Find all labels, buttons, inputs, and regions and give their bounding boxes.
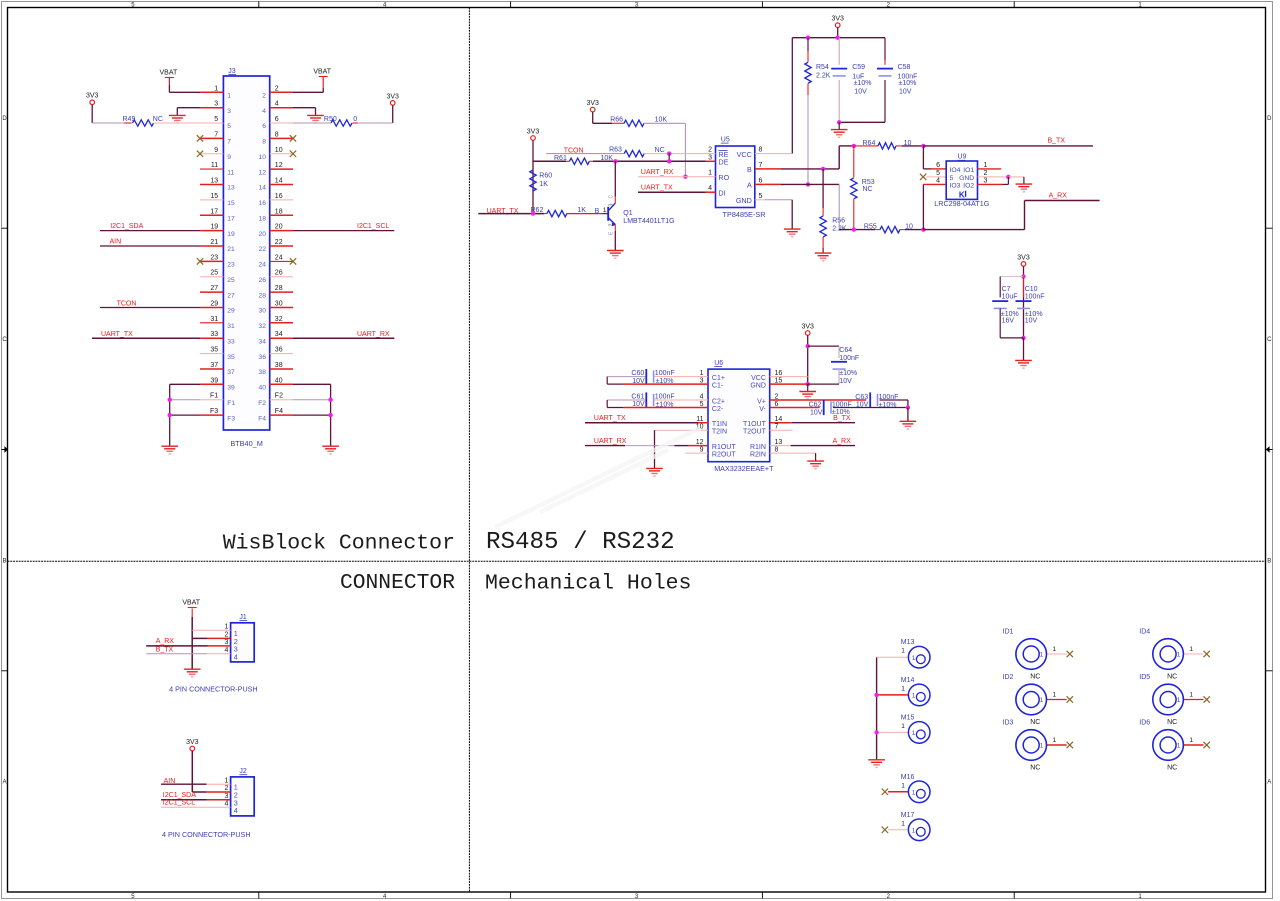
svg-text:1: 1 (901, 648, 905, 655)
svg-text:34: 34 (259, 338, 267, 345)
svg-text:R62: R62 (531, 207, 544, 214)
svg-text:UART_TX: UART_TX (594, 415, 626, 422)
svg-text:IO1: IO1 (963, 167, 974, 174)
svg-text:28: 28 (275, 285, 283, 292)
svg-text:B: B (1267, 558, 1271, 564)
svg-text:3: 3 (708, 154, 712, 161)
svg-text:J2: J2 (239, 768, 247, 775)
svg-text:C: C (2, 337, 7, 343)
svg-text:1: 1 (1053, 737, 1057, 744)
svg-text:UART_TX: UART_TX (641, 185, 673, 192)
svg-text:1: 1 (1177, 697, 1181, 704)
svg-text:39: 39 (210, 377, 218, 384)
svg-text:17: 17 (210, 208, 218, 215)
svg-text:F4: F4 (258, 415, 266, 422)
svg-text:100nF: 100nF (655, 370, 675, 377)
svg-text:4: 4 (224, 647, 228, 654)
svg-text:22: 22 (275, 239, 283, 246)
svg-text:3: 3 (214, 101, 218, 108)
svg-text:GND: GND (959, 175, 974, 182)
svg-text:10V: 10V (839, 378, 852, 385)
svg-text:4: 4 (224, 801, 228, 808)
svg-text:DE: DE (718, 158, 728, 167)
svg-text:10V: 10V (856, 401, 869, 408)
svg-text:3V3: 3V3 (1017, 254, 1030, 261)
svg-text:C2-: C2- (712, 406, 724, 413)
svg-text:29: 29 (210, 301, 218, 308)
svg-text:10: 10 (905, 224, 913, 231)
svg-text:VCC: VCC (751, 375, 766, 382)
svg-text:12: 12 (259, 169, 267, 176)
svg-text:10V: 10V (854, 89, 867, 96)
svg-text:21: 21 (210, 239, 218, 246)
svg-text:C: C (609, 195, 615, 199)
svg-text:24: 24 (259, 262, 267, 269)
svg-text:3: 3 (227, 108, 231, 115)
svg-text:TCON: TCON (117, 300, 137, 307)
svg-text:10K: 10K (655, 117, 668, 124)
svg-text:31: 31 (210, 316, 218, 323)
svg-text:1: 1 (912, 655, 916, 662)
svg-text:1: 1 (1040, 743, 1044, 750)
svg-text:1: 1 (901, 685, 905, 692)
svg-text:WisBlock Connector: WisBlock Connector (223, 532, 455, 556)
svg-text:10uF: 10uF (1002, 293, 1018, 300)
svg-text:1: 1 (1189, 692, 1193, 699)
svg-text:25: 25 (210, 270, 218, 277)
svg-text:I2C1_SDA: I2C1_SDA (110, 223, 143, 230)
svg-text:29: 29 (227, 308, 235, 315)
svg-text:C64: C64 (839, 347, 852, 354)
svg-text:6: 6 (759, 177, 763, 184)
svg-text:1: 1 (224, 777, 228, 784)
svg-text:7: 7 (759, 162, 763, 169)
svg-text:NC: NC (153, 116, 163, 123)
svg-text:I2C1_SDA: I2C1_SDA (163, 792, 196, 799)
svg-text:1K: 1K (539, 181, 548, 188)
svg-text:37: 37 (227, 369, 235, 376)
svg-text:1: 1 (1189, 737, 1193, 744)
svg-text:R1OUT: R1OUT (712, 444, 736, 451)
svg-text:A_RX: A_RX (156, 638, 175, 645)
svg-text:5: 5 (759, 193, 763, 200)
svg-text:21: 21 (227, 246, 235, 253)
svg-text:8: 8 (275, 131, 279, 138)
svg-text:37: 37 (210, 362, 218, 369)
svg-text:7: 7 (775, 424, 779, 431)
svg-text:NC: NC (1167, 674, 1177, 681)
svg-text:38: 38 (259, 369, 267, 376)
svg-text:100nF: 100nF (655, 394, 675, 401)
svg-text:T1OUT: T1OUT (743, 421, 767, 428)
svg-text:33: 33 (227, 338, 235, 345)
svg-text:3V3: 3V3 (831, 16, 844, 23)
svg-text:6: 6 (936, 162, 940, 169)
svg-text:V+: V+ (757, 398, 766, 405)
svg-text:100nF: 100nF (879, 394, 899, 401)
svg-text:100nF: 100nF (839, 355, 859, 362)
svg-text:100nF: 100nF (832, 401, 852, 408)
svg-text:AIN: AIN (164, 778, 176, 785)
svg-text:7: 7 (227, 139, 231, 146)
svg-text:13: 13 (227, 185, 235, 192)
svg-text:F2: F2 (258, 400, 266, 407)
svg-text:19: 19 (210, 224, 218, 231)
svg-text:B_TX: B_TX (156, 646, 174, 653)
svg-text:25: 25 (227, 277, 235, 284)
svg-text:10V: 10V (632, 378, 645, 385)
svg-text:M13: M13 (901, 639, 915, 646)
svg-text:T2OUT: T2OUT (743, 429, 767, 436)
svg-text:±10%: ±10% (879, 402, 897, 409)
svg-text:10V: 10V (810, 409, 823, 416)
svg-text:V-: V- (759, 406, 766, 413)
svg-text:I2C1_SCL: I2C1_SCL (163, 800, 195, 807)
svg-text:C2+: C2+ (712, 398, 725, 405)
svg-text:13: 13 (210, 178, 218, 185)
svg-text:6: 6 (262, 123, 266, 130)
svg-text:1: 1 (901, 782, 905, 789)
svg-text:C61: C61 (631, 394, 644, 401)
svg-text:B: B (595, 208, 600, 215)
svg-text:ID3: ID3 (1003, 719, 1014, 726)
svg-text:M15: M15 (901, 714, 915, 721)
svg-text:26: 26 (275, 270, 283, 277)
svg-text:13: 13 (775, 439, 783, 446)
svg-text:TCON: TCON (564, 147, 584, 154)
svg-text:2.2K: 2.2K (816, 73, 831, 80)
svg-text:10: 10 (275, 147, 283, 154)
svg-text:11: 11 (227, 169, 234, 176)
svg-text:R66: R66 (610, 117, 623, 124)
svg-text:±10%: ±10% (656, 402, 674, 409)
svg-text:2: 2 (224, 785, 228, 792)
svg-text:CONNECTOR: CONNECTOR (340, 571, 455, 595)
svg-text:2: 2 (262, 93, 266, 100)
svg-text:14: 14 (275, 178, 283, 185)
svg-text:16V: 16V (1002, 317, 1015, 324)
svg-text:NC: NC (1167, 719, 1177, 726)
svg-text:R64: R64 (863, 140, 876, 147)
svg-text:Q1: Q1 (623, 210, 632, 217)
svg-text:10K: 10K (601, 155, 614, 162)
svg-text:3V3: 3V3 (186, 739, 199, 746)
svg-text:±10%: ±10% (839, 370, 857, 377)
svg-text:D: D (1267, 116, 1272, 122)
svg-text:C58: C58 (898, 64, 911, 71)
svg-text:28: 28 (259, 292, 267, 299)
svg-text:F3: F3 (227, 415, 235, 422)
svg-text:100nF: 100nF (1025, 293, 1045, 300)
svg-text:10V: 10V (899, 89, 912, 96)
svg-text:6: 6 (275, 116, 279, 123)
svg-text:19: 19 (227, 231, 235, 238)
svg-text:1: 1 (912, 827, 916, 834)
svg-text:C59: C59 (852, 64, 865, 71)
svg-text:GND: GND (736, 196, 752, 205)
svg-text:1: 1 (1053, 692, 1057, 699)
svg-text:10: 10 (259, 154, 267, 161)
svg-text:R50: R50 (324, 116, 337, 123)
svg-text:1: 1 (1177, 652, 1181, 659)
svg-text:14: 14 (259, 185, 267, 192)
svg-text:1: 1 (901, 820, 905, 827)
svg-text:10V: 10V (632, 401, 645, 408)
svg-text:1: 1 (912, 693, 916, 700)
svg-text:40: 40 (275, 377, 283, 384)
svg-text:4 PIN CONNECTOR-PUSH: 4 PIN CONNECTOR-PUSH (162, 830, 251, 839)
svg-text:1: 1 (700, 370, 704, 377)
svg-text:VBAT: VBAT (182, 600, 200, 607)
svg-text:9: 9 (227, 154, 231, 161)
svg-text:T2IN: T2IN (712, 429, 727, 436)
svg-text:F1: F1 (227, 400, 235, 407)
svg-text:VBAT: VBAT (313, 69, 331, 76)
svg-text:ID2: ID2 (1003, 674, 1014, 681)
svg-text:B_TX: B_TX (1048, 138, 1066, 145)
svg-text:8: 8 (759, 147, 763, 154)
svg-text:4: 4 (708, 185, 712, 192)
svg-text:5: 5 (214, 116, 218, 123)
svg-text:F1: F1 (210, 393, 218, 400)
svg-text:10V: 10V (1025, 317, 1038, 324)
svg-text:27: 27 (227, 292, 235, 299)
svg-text:1: 1 (1177, 743, 1181, 750)
svg-text:C: C (1267, 337, 1272, 343)
svg-text:C7: C7 (1002, 286, 1011, 293)
svg-text:J1: J1 (239, 614, 247, 621)
svg-text:C10: C10 (1025, 286, 1038, 293)
svg-text:U5: U5 (721, 137, 730, 144)
svg-text:30: 30 (259, 308, 267, 315)
svg-text:39: 39 (227, 385, 235, 392)
svg-text:3V3: 3V3 (801, 323, 814, 330)
svg-text:Mechanical Holes: Mechanical Holes (485, 571, 691, 595)
svg-text:1K: 1K (577, 207, 586, 214)
svg-text:IO3: IO3 (950, 183, 961, 190)
svg-text:2: 2 (275, 85, 279, 92)
svg-text:32: 32 (275, 316, 283, 323)
svg-text:2: 2 (984, 170, 988, 177)
svg-text:C62: C62 (809, 401, 822, 408)
svg-text:UART_RX: UART_RX (594, 438, 627, 445)
svg-text:BTB40_M: BTB40_M (230, 439, 262, 448)
svg-text:15: 15 (227, 200, 235, 207)
svg-text:16: 16 (259, 200, 267, 207)
svg-text:I2C1_SCL: I2C1_SCL (357, 223, 389, 230)
svg-text:AIN: AIN (110, 239, 122, 246)
svg-text:3: 3 (224, 793, 228, 800)
svg-text:R49: R49 (123, 116, 136, 123)
svg-text:1: 1 (912, 730, 916, 737)
svg-text:UART_RX: UART_RX (641, 169, 674, 176)
svg-text:±10%: ±10% (656, 378, 674, 385)
svg-text:36: 36 (275, 347, 283, 354)
svg-text:5: 5 (227, 123, 231, 130)
svg-text:7: 7 (214, 131, 218, 138)
svg-text:R55: R55 (864, 224, 877, 231)
svg-text:ID6: ID6 (1139, 719, 1150, 726)
svg-text:3: 3 (984, 177, 988, 184)
svg-text:38: 38 (275, 362, 283, 369)
svg-text:NC: NC (1030, 674, 1040, 681)
svg-text:17: 17 (227, 216, 235, 223)
svg-text:1: 1 (1040, 652, 1044, 659)
svg-text:1: 1 (603, 207, 607, 214)
svg-text:5: 5 (950, 175, 954, 182)
svg-text:R61: R61 (554, 155, 567, 162)
svg-text:2: 2 (708, 147, 712, 154)
svg-text:18: 18 (275, 208, 283, 215)
svg-text:C1+: C1+ (712, 375, 725, 382)
svg-text:F2: F2 (275, 393, 283, 400)
svg-text:4: 4 (234, 652, 238, 661)
svg-text:ID5: ID5 (1139, 674, 1150, 681)
svg-text:3V3: 3V3 (527, 128, 540, 135)
svg-text:20: 20 (275, 224, 283, 231)
svg-text:A: A (2, 780, 6, 786)
svg-text:RS485 / RS232: RS485 / RS232 (486, 529, 675, 556)
svg-text:16: 16 (775, 370, 783, 377)
svg-text:NC: NC (1030, 719, 1040, 726)
svg-text:15: 15 (210, 193, 218, 200)
svg-text:MAX3232EEAE+T: MAX3232EEAE+T (714, 464, 774, 473)
svg-text:3: 3 (224, 639, 228, 646)
svg-text:B_TX: B_TX (833, 415, 851, 422)
svg-text:±10%: ±10% (854, 80, 872, 87)
svg-text:4: 4 (936, 177, 940, 184)
svg-text:R60: R60 (539, 173, 552, 180)
svg-text:1: 1 (224, 624, 228, 631)
svg-text:U6: U6 (714, 360, 723, 367)
svg-text:2: 2 (224, 632, 228, 639)
svg-text:1: 1 (1189, 646, 1193, 653)
svg-text:K: K (959, 190, 965, 199)
svg-text:UART_TX: UART_TX (101, 331, 133, 338)
svg-text:GND: GND (750, 383, 766, 390)
svg-text:A_RX: A_RX (1049, 192, 1068, 199)
svg-text:23: 23 (210, 254, 218, 261)
svg-text:±10%: ±10% (899, 80, 917, 87)
svg-text:35: 35 (227, 354, 235, 361)
svg-text:20: 20 (259, 231, 267, 238)
svg-text:VCC: VCC (737, 150, 752, 159)
svg-text:31: 31 (227, 323, 235, 330)
svg-text:16: 16 (275, 193, 283, 200)
svg-text:A_RX: A_RX (833, 438, 852, 445)
svg-text:1: 1 (227, 93, 231, 100)
svg-text:34: 34 (275, 331, 283, 338)
svg-text:C60: C60 (631, 370, 644, 377)
svg-text:IO4: IO4 (950, 167, 961, 174)
svg-text:27: 27 (210, 285, 218, 292)
svg-text:1: 1 (1040, 697, 1044, 704)
svg-text:4: 4 (262, 108, 266, 115)
svg-text:2: 2 (609, 224, 615, 227)
svg-text:R54: R54 (816, 64, 829, 71)
svg-text:40: 40 (259, 385, 267, 392)
svg-text:3V3: 3V3 (586, 100, 599, 107)
svg-text:24: 24 (275, 254, 283, 261)
svg-text:1: 1 (708, 170, 712, 177)
svg-text:UART_RX: UART_RX (357, 331, 390, 338)
svg-text:8: 8 (775, 447, 779, 454)
svg-text:LRC298-04AT1G: LRC298-04AT1G (934, 199, 989, 208)
svg-text:9: 9 (214, 147, 218, 154)
svg-text:ID1: ID1 (1003, 628, 1014, 635)
svg-text:3: 3 (609, 204, 615, 207)
svg-text:R2OUT: R2OUT (712, 452, 736, 459)
svg-text:33: 33 (210, 331, 218, 338)
svg-text:C1-: C1- (712, 383, 724, 390)
svg-text:1: 1 (984, 162, 988, 169)
svg-text:NC: NC (655, 147, 665, 154)
svg-text:DI: DI (718, 188, 725, 197)
svg-text:18: 18 (259, 216, 267, 223)
svg-text:11: 11 (211, 162, 218, 169)
svg-text:30: 30 (275, 301, 283, 308)
svg-text:23: 23 (227, 262, 235, 269)
svg-text:IO2: IO2 (963, 183, 974, 190)
svg-text:4: 4 (700, 393, 704, 400)
svg-text:1: 1 (912, 789, 916, 796)
svg-text:VBAT: VBAT (160, 70, 178, 77)
svg-text:4: 4 (275, 101, 279, 108)
svg-text:1: 1 (214, 85, 218, 92)
svg-text:1: 1 (1053, 646, 1057, 653)
svg-text:5: 5 (936, 170, 940, 177)
svg-text:1: 1 (901, 723, 905, 730)
svg-text:M17: M17 (901, 812, 915, 819)
svg-text:NC: NC (863, 186, 873, 193)
svg-text:A: A (747, 181, 752, 190)
svg-text:35: 35 (210, 347, 218, 354)
svg-text:A: A (1267, 780, 1271, 786)
svg-text:RO: RO (718, 173, 729, 182)
svg-text:F4: F4 (275, 408, 283, 415)
svg-text:NC: NC (1030, 765, 1040, 772)
svg-text:B: B (2, 558, 6, 564)
svg-text:J3: J3 (228, 68, 236, 75)
svg-text:22: 22 (259, 246, 267, 253)
svg-text:TP8485E-SR: TP8485E-SR (723, 210, 766, 219)
svg-text:3V3: 3V3 (86, 93, 99, 100)
svg-text:NC: NC (1167, 765, 1177, 772)
svg-text:4 PIN CONNECTOR-PUSH: 4 PIN CONNECTOR-PUSH (169, 685, 258, 694)
svg-text:R1IN: R1IN (750, 444, 766, 451)
svg-text:8: 8 (262, 139, 266, 146)
svg-text:D: D (2, 116, 7, 122)
svg-text:4: 4 (234, 806, 238, 815)
svg-text:26: 26 (259, 277, 267, 284)
svg-text:F3: F3 (210, 408, 218, 415)
svg-text:10: 10 (904, 140, 912, 147)
svg-text:R2IN: R2IN (750, 452, 766, 459)
svg-text:32: 32 (259, 323, 267, 330)
svg-text:U9: U9 (958, 154, 967, 161)
svg-text:M14: M14 (901, 677, 915, 684)
svg-text:R63: R63 (609, 147, 622, 154)
svg-text:3V3: 3V3 (386, 93, 399, 100)
svg-text:T1IN: T1IN (712, 421, 727, 428)
svg-text:C63: C63 (855, 394, 868, 401)
svg-text:36: 36 (259, 354, 267, 361)
svg-text:ID4: ID4 (1139, 628, 1150, 635)
svg-text:M16: M16 (901, 774, 915, 781)
svg-text:9: 9 (700, 447, 704, 454)
svg-text:0: 0 (353, 116, 357, 123)
svg-text:B: B (747, 165, 752, 174)
